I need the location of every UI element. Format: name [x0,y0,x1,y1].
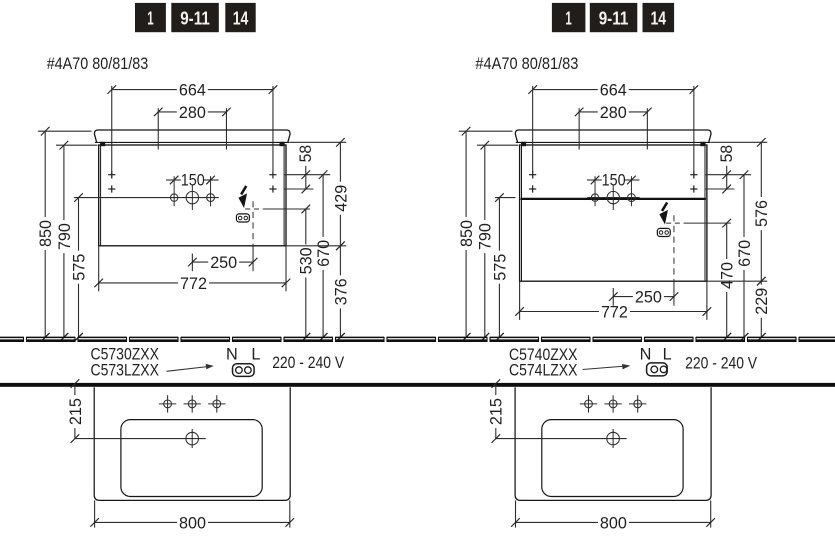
tap holes (right) [591,194,598,201]
svg-text:575: 575 [491,254,509,281]
socket icon (right) [647,363,668,376]
dim 790 (right) [477,144,519,146]
dim 664 (right) [533,89,598,91]
drain hole (left) [186,432,199,445]
svg-text:800: 800 [600,514,627,532]
cabinet outline (left) [99,145,286,246]
hinge bracket right (right) [700,142,705,146]
hinge bracket left (left) [100,142,105,146]
dim 215 (right) [496,438,627,440]
dim 250 (right) [612,288,614,306]
leader arrow (left) [167,366,210,371]
dim 575 (left) [78,198,80,251]
svg-text:790: 790 [477,223,495,250]
dim 280 (left) [158,111,177,113]
drawer divider line (right) [521,198,706,200]
tap holes (left) [170,194,177,201]
washbasin top profile (left) [94,130,290,142]
dim 800 (left) [94,500,96,527]
svg-text:670: 670 [736,240,754,267]
svg-text:429: 429 [332,185,350,212]
section divider band [0,383,835,387]
dim 575 (right) [498,198,500,251]
svg-text:800: 800 [179,514,206,532]
svg-text:229: 229 [753,288,771,315]
svg-text:215: 215 [488,398,506,425]
tag 9-11 (left) [171,3,219,32]
dim 215 (left) [75,438,206,440]
svg-text:250: 250 [210,254,237,272]
basin inner bowl (left) [121,420,262,497]
dim 150 (left) [166,179,181,181]
svg-text:1: 1 [565,8,571,29]
svg-text:470: 470 [719,262,737,289]
dim 58 (right) [705,174,751,176]
svg-text:#4A70 80/81/83: #4A70 80/81/83 [47,55,149,73]
mounting holes (right) [529,174,536,176]
svg-text:220 - 240 V: 220 - 240 V [272,354,344,372]
dim 250 (left) [191,254,193,272]
floor tick marks (left) [41,333,50,342]
hinge bracket right (left) [280,142,285,146]
socket icon small (left) [236,214,249,222]
tag 14 (right) [643,3,675,32]
svg-text:215: 215 [67,398,85,425]
socket icon (left) [233,364,255,377]
tag 1 (left) [135,3,166,32]
tag 9-11 (right) [590,3,638,32]
dim 229 (right) [707,280,767,282]
svg-text:850: 850 [458,220,476,247]
svg-text:576: 576 [753,200,771,227]
svg-text:575: 575 [70,254,88,281]
svg-text:58: 58 [297,145,315,163]
outlet centre lines dashed (left) [245,208,263,210]
basin inner bowl (right) [542,420,683,497]
svg-text:250: 250 [635,289,662,307]
hinge bracket left (right) [521,142,526,146]
floor / wall section line [0,337,835,342]
leader arrow (right) [583,366,626,370]
tap hole centre lines (right) [495,197,516,199]
svg-text:C574LZXX: C574LZXX [509,362,578,380]
svg-text:220 - 240 V: 220 - 240 V [685,355,757,373]
mounting holes (left) [108,174,115,176]
svg-text:772: 772 [180,275,207,293]
svg-text:1: 1 [147,8,153,29]
tap holes bottom view (right) [585,400,593,408]
svg-text:850: 850 [37,220,55,247]
basin outer outline bottom view (left) [94,387,290,500]
svg-text:L: L [251,345,260,363]
svg-text:530: 530 [298,247,316,274]
svg-text:#4A70 80/81/83: #4A70 80/81/83 [475,55,578,73]
dim 664 (left) [112,89,177,91]
svg-text:150: 150 [181,172,205,190]
svg-text:790: 790 [56,223,74,250]
dim 664 extension lines (right) [532,86,534,179]
dim 530 (left) [305,209,307,244]
cabinet outline (right) [520,145,707,281]
svg-text:376: 376 [332,278,350,305]
svg-text:670: 670 [315,240,333,267]
dim 58 (left) [284,174,330,176]
dim 576 (right) [711,141,767,143]
svg-text:N: N [226,345,238,363]
svg-text:C5730ZXX: C5730ZXX [91,345,160,363]
dim 850 (left) [38,130,92,132]
svg-text:14: 14 [233,8,249,29]
svg-text:150: 150 [602,172,626,190]
dim 280 (right) [579,111,598,113]
svg-text:14: 14 [651,8,667,29]
tag 1 (right) [552,3,586,32]
electrical symbol lightning bolt (left) [241,186,246,194]
svg-text:9-11: 9-11 [599,8,629,29]
dim 772 (left) [98,246,100,291]
svg-text:9-11: 9-11 [180,8,210,29]
svg-text:L: L [663,345,672,363]
outlet centre lines dashed (right) [666,222,684,224]
dim 280 extension lines (right) [578,108,580,149]
svg-text:280: 280 [600,104,627,122]
electrical symbol lightning bolt (right) [662,203,667,211]
drain hole (right) [607,432,620,445]
svg-text:C573LZXX: C573LZXX [91,362,160,380]
dim 670 (left) [319,170,328,179]
washbasin top profile (right) [515,130,711,142]
dim 280 extension lines (left) [157,108,159,149]
dim 150 (right) [587,179,602,181]
tap hole centre lines (left) [74,197,219,199]
dim 670 (right) [740,170,749,179]
dim 790 (left) [56,144,98,146]
dim 800 (right) [515,500,517,527]
socket icon small (right) [657,228,670,236]
dim 429 (left) [290,141,346,143]
tag 14 (left) [225,3,255,32]
svg-text:N: N [640,345,652,363]
svg-text:58: 58 [718,145,736,163]
dim 376 (left) [286,245,346,247]
tap holes bottom view (left) [164,400,172,408]
basin outer outline bottom view (right) [515,387,711,500]
dim 850 (right) [459,130,513,132]
svg-text:280: 280 [179,104,206,122]
svg-text:772: 772 [601,303,628,321]
dim 772 (right) [519,281,521,320]
floor tick marks (right) [462,333,471,342]
svg-text:664: 664 [179,82,206,100]
dim 470 (right) [726,223,728,259]
dim 664 extension lines (left) [111,86,113,179]
svg-text:664: 664 [600,82,627,100]
